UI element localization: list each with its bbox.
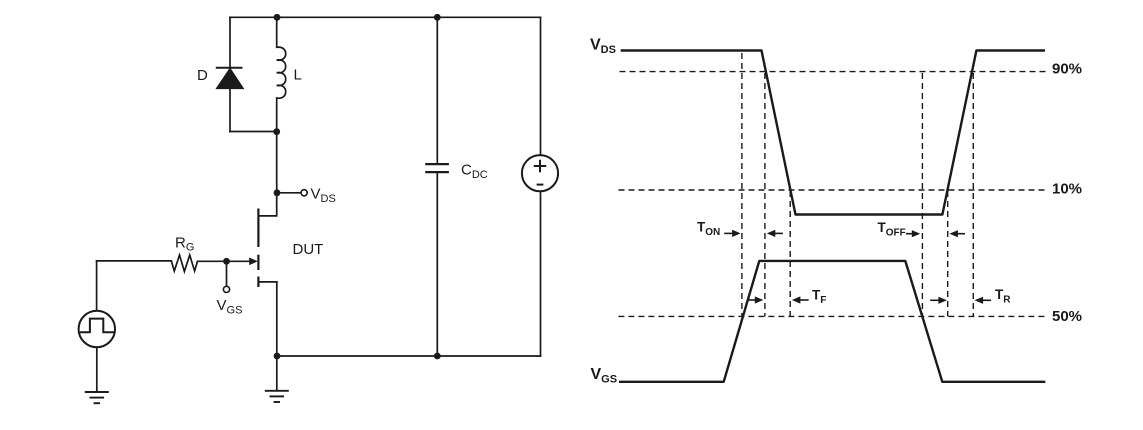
wire loop bottom (230, 131, 277, 133)
capacitor CDC (425, 164, 449, 172)
arrow TR right (930, 297, 947, 304)
wire Vgs tap (226, 261, 228, 286)
svg-text:TR: TR (995, 287, 1011, 306)
dashed vertical v4 (VGS fall 50%) (921, 73, 923, 316)
inductor L (277, 47, 286, 98)
svg-text:D: D (197, 67, 208, 84)
wire pulse source bottom (96, 347, 98, 392)
svg-text:50%: 50% (1052, 308, 1082, 325)
svg-text:CDC: CDC (461, 162, 488, 182)
diode D (216, 68, 244, 89)
wire gate left vertical (96, 261, 98, 311)
svg-text:RG: RG (175, 235, 194, 254)
wire top rail (230, 16, 541, 18)
dashed 10% level line (619, 189, 1046, 191)
dashed 90% level line (620, 71, 1047, 73)
resistor RG (171, 255, 197, 272)
dashed vertical v2 (VDS fall 90%) (764, 73, 766, 316)
wire inductor top (276, 17, 278, 47)
svg-text:TF: TF (812, 288, 826, 307)
svg-text:VDS: VDS (311, 186, 336, 206)
arrow TOFF left (949, 230, 965, 237)
arrow TF left (792, 296, 809, 303)
svg-text:90%: 90% (1052, 61, 1082, 78)
wire drain line (258, 132, 276, 216)
svg-text:TOFF: TOFF (878, 220, 906, 239)
wire supply branch bottom (540, 191, 542, 356)
ground (pulse source) (85, 392, 109, 403)
wire bottom rail (277, 355, 541, 357)
arrow TOFF right (906, 230, 920, 237)
node Vgs terminal circle (223, 286, 229, 292)
arrow TON left (767, 230, 783, 237)
wire gate horizontal (97, 260, 172, 262)
wire supply branch top (540, 17, 542, 155)
wire capacitor branch top (436, 17, 438, 163)
wire diode branch top (229, 17, 231, 67)
arrow TF leftward-pointing pair: right-arrow at v2 (748, 296, 763, 303)
svg-text:VDS: VDS (590, 37, 616, 57)
source pulse generator (79, 311, 115, 347)
svg-text:L: L (294, 67, 302, 84)
dashed vertical v5 (VDS rise 10%) (947, 191, 949, 316)
arrow TON right (724, 230, 740, 237)
wire capacitor branch bottom (436, 173, 438, 356)
dashed vertical v6 (VDS rise 90%) (972, 73, 974, 316)
svg-text:VGS: VGS (217, 297, 243, 317)
transistor DUT (MOSFET) (257, 209, 259, 288)
VDS waveform (621, 51, 1045, 215)
svg-text:VGS: VGS (591, 366, 618, 386)
wire diode branch bottom (229, 88, 231, 131)
dashed vertical v3 (VDS fall 10%) (789, 191, 791, 316)
VGS waveform (619, 261, 1045, 382)
wire source down (276, 282, 278, 390)
wire Vds tap (277, 192, 301, 194)
node junction dots (223, 14, 441, 360)
gate arrowhead of DUT (249, 258, 258, 266)
svg-text:DUT: DUT (293, 241, 324, 258)
arrow TR left (975, 297, 992, 304)
wire source tap (258, 281, 276, 283)
svg-text:10%: 10% (1052, 181, 1082, 198)
ground (DUT source) (265, 391, 289, 402)
source VDC (DC supply) (522, 155, 558, 191)
dashed vertical v1 (VGS rise 50%) (741, 53, 743, 316)
wire resistor to gate (198, 260, 251, 262)
svg-text:TON: TON (697, 220, 720, 239)
wire inductor bottom (276, 98, 278, 132)
node Vds terminal circle (301, 190, 307, 196)
dashed 50% level line (618, 315, 1045, 317)
